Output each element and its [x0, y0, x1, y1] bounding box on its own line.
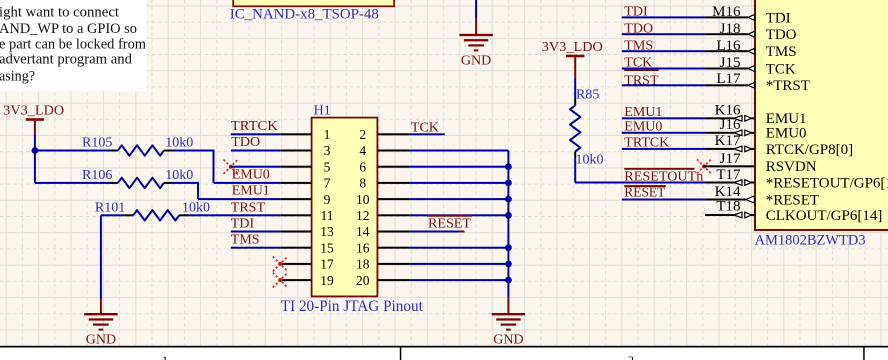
- svg-text:14: 14: [356, 224, 370, 239]
- pin K17: [622, 133, 755, 152]
- wire: [231, 166, 281, 168]
- svg-text:15: 15: [320, 240, 334, 255]
- junction: [505, 261, 512, 268]
- svg-text:R105: R105: [82, 136, 112, 151]
- net label RESET with overline: [427, 215, 472, 232]
- wire: [409, 247, 508, 249]
- svg-text:4: 4: [359, 143, 366, 158]
- net label EMU1: [624, 105, 662, 120]
- net label RESET with overline: [624, 185, 666, 200]
- svg-text:J18: J18: [720, 21, 741, 37]
- pin M16: [622, 4, 755, 20]
- wire: [35, 150, 109, 152]
- wire: [231, 231, 281, 233]
- sheet margin: [0, 347, 888, 360]
- pin numbers 1-20: [320, 127, 369, 288]
- junction: [32, 147, 39, 154]
- svg-text:R106: R106: [82, 168, 112, 183]
- wire: [409, 263, 508, 265]
- svg-text:5: 5: [324, 159, 331, 174]
- svg-text:K17: K17: [715, 133, 741, 149]
- svg-text:TI 20-Pin JTAG Pinout: TI 20-Pin JTAG Pinout: [281, 298, 424, 315]
- svg-text:ight want to connect: ight want to connect: [0, 4, 120, 20]
- pin T18: [705, 198, 755, 217]
- svg-text:12: 12: [356, 208, 370, 223]
- wire: [409, 198, 508, 200]
- wire bus: [507, 151, 509, 298]
- wire: [409, 279, 508, 281]
- resistor R105: [82, 136, 193, 156]
- wire: [409, 150, 508, 152]
- component AM1802 box: [755, 0, 888, 230]
- wire: [409, 231, 464, 233]
- svg-text:8: 8: [359, 176, 366, 191]
- svg-text:18: 18: [356, 257, 370, 272]
- wire: [409, 166, 508, 168]
- label IC_NAND-x8_TSOP-48: [230, 6, 379, 22]
- label AM1802BZWTD3: [755, 233, 866, 249]
- net label TDO: [231, 135, 260, 150]
- ground: [492, 297, 525, 348]
- svg-text:L16: L16: [716, 38, 741, 54]
- wire: [409, 133, 444, 135]
- junction: [505, 163, 512, 170]
- resistor R101: [95, 201, 210, 221]
- svg-text:J15: J15: [720, 55, 741, 71]
- net label RESETOUTn with overline: [624, 168, 703, 185]
- wire: [231, 133, 281, 135]
- pin K14: [622, 184, 755, 203]
- svg-text:T17: T17: [716, 167, 741, 183]
- svg-text:2: 2: [359, 127, 366, 142]
- svg-text:IC_NAND-x8_TSOP-48: IC_NAND-x8_TSOP-48: [230, 6, 379, 22]
- svg-text:GND: GND: [461, 53, 491, 68]
- pin L17: [622, 71, 755, 88]
- svg-text:10k0: 10k0: [165, 136, 193, 151]
- svg-text:R85: R85: [576, 87, 599, 102]
- svg-text:1: 1: [162, 353, 168, 360]
- net label TRTCK: [624, 136, 669, 151]
- svg-text:J17: J17: [720, 151, 741, 167]
- svg-text:17: 17: [320, 257, 334, 272]
- svg-text:TCK: TCK: [766, 61, 796, 77]
- connector left pin stubs: [280, 133, 311, 281]
- svg-text:GND: GND: [86, 333, 116, 348]
- wire: [173, 182, 281, 200]
- net label TDO: [624, 21, 653, 36]
- power 3V3_LDO: [542, 40, 603, 77]
- svg-text:RESET: RESET: [624, 186, 665, 201]
- no-ERC marker: [697, 159, 711, 173]
- no-ERC marker: [273, 257, 288, 272]
- wire: [475, 0, 477, 19]
- svg-text:3V3_LDO: 3V3_LDO: [3, 104, 64, 119]
- wire: [173, 150, 281, 184]
- svg-text:6: 6: [359, 159, 366, 174]
- wire: [100, 214, 124, 299]
- text note: [0, 0, 147, 91]
- svg-text:RESETOUTn: RESETOUTn: [624, 169, 703, 184]
- wire: [409, 214, 508, 216]
- svg-text:asing?: asing?: [0, 68, 35, 84]
- net label EMU0: [624, 120, 662, 135]
- connector right pin stubs: [377, 133, 409, 281]
- no-ERC marker: [273, 273, 288, 288]
- pin names inside AM1802: [766, 10, 888, 224]
- pin J17: [703, 151, 755, 168]
- pin J16: [622, 117, 755, 136]
- svg-text:16: 16: [356, 240, 370, 255]
- wire: [231, 247, 281, 249]
- svg-text:TDI: TDI: [231, 217, 255, 232]
- svg-text:TMS: TMS: [766, 44, 797, 60]
- wire: [231, 150, 281, 152]
- net label EMU0: [232, 168, 270, 183]
- wire: [409, 182, 508, 184]
- svg-text:RESET: RESET: [428, 216, 471, 231]
- svg-text:19: 19: [320, 273, 334, 288]
- svg-text:9: 9: [324, 192, 331, 207]
- svg-text:20: 20: [356, 273, 370, 288]
- ground: [459, 19, 492, 69]
- junction: [505, 180, 512, 187]
- svg-text:10: 10: [356, 192, 370, 207]
- svg-text:3V3_LDO: 3V3_LDO: [542, 40, 603, 55]
- net label EMU1: [232, 184, 270, 199]
- svg-text:AM1802BZWTD3: AM1802BZWTD3: [755, 233, 866, 249]
- svg-text:L17: L17: [716, 71, 741, 87]
- resistor R85: [570, 87, 604, 167]
- svg-text:T18: T18: [716, 198, 740, 214]
- power 3V3_LDO: [3, 104, 64, 135]
- svg-text:*RESET: *RESET: [766, 192, 819, 208]
- svg-text:e part can be locked from: e part can be locked from: [0, 36, 146, 52]
- svg-text:R101: R101: [95, 201, 125, 216]
- net label TRTCK: [231, 119, 278, 134]
- net label TRST: [231, 200, 266, 215]
- junction: [505, 212, 512, 219]
- svg-text:EMU0: EMU0: [232, 168, 270, 183]
- sheet border: [0, 346, 888, 360]
- wire: [188, 214, 280, 216]
- pin L16: [622, 38, 755, 54]
- svg-text:EMU1: EMU1: [232, 184, 270, 199]
- wire: [574, 77, 576, 99]
- pin K16: [622, 103, 755, 122]
- svg-text:11: 11: [321, 208, 334, 223]
- net label TMS: [624, 38, 653, 53]
- svg-text:J16: J16: [720, 117, 741, 133]
- junction: [505, 196, 512, 203]
- wire: [34, 151, 109, 184]
- net label TCK: [411, 121, 439, 136]
- resistor R106: [82, 168, 193, 188]
- svg-text:TDI: TDI: [766, 10, 791, 26]
- svg-text:RTCK/GP8[0]: RTCK/GP8[0]: [766, 142, 853, 158]
- no-ERC marker: [224, 160, 238, 174]
- connector H1 box: [312, 118, 378, 297]
- net label TCK: [624, 56, 652, 71]
- net label TMS: [231, 233, 260, 248]
- wire: [34, 135, 36, 151]
- svg-text:TMS: TMS: [231, 233, 260, 248]
- svg-text:10k0: 10k0: [165, 168, 193, 183]
- ground: [84, 300, 117, 348]
- junction: [505, 244, 512, 251]
- svg-text:EMU0: EMU0: [766, 126, 807, 142]
- pin T17: [706, 167, 755, 185]
- svg-text:3: 3: [324, 143, 331, 158]
- svg-text:CLKOUT/GP6[14]: CLKOUT/GP6[14]: [766, 208, 883, 224]
- pin J15: [622, 55, 755, 71]
- svg-text:H1: H1: [314, 103, 331, 118]
- svg-text:*TRST: *TRST: [766, 78, 810, 94]
- svg-text:TDO: TDO: [766, 27, 797, 43]
- svg-text:7: 7: [324, 176, 331, 191]
- svg-text:AND_WP to a GPIO so: AND_WP to a GPIO so: [0, 21, 137, 37]
- svg-text:13: 13: [320, 224, 334, 239]
- pin J18: [622, 21, 755, 37]
- component IC_NAND box (bottom edge): [233, 0, 394, 6]
- label TI 20-Pin JTAG Pinout: [281, 298, 424, 315]
- net label TRST with overline: [624, 69, 659, 88]
- svg-text:TRST: TRST: [231, 200, 266, 215]
- svg-text:RSVDN: RSVDN: [766, 159, 817, 175]
- svg-text:TDO: TDO: [231, 135, 260, 150]
- svg-text:advertant program and: advertant program and: [0, 52, 132, 68]
- svg-text:GND: GND: [493, 333, 523, 348]
- svg-text:10k0: 10k0: [182, 201, 210, 216]
- wire: [574, 158, 706, 184]
- svg-text:1: 1: [324, 127, 331, 142]
- net label TDI: [231, 217, 255, 232]
- svg-text:M16: M16: [712, 4, 741, 20]
- net label TDI: [624, 5, 648, 20]
- svg-text:10k0: 10k0: [576, 152, 604, 167]
- svg-text:*RESETOUT/GP6[1..: *RESETOUT/GP6[1..: [766, 175, 888, 191]
- junction: [505, 277, 512, 284]
- svg-text:TRTCK: TRTCK: [231, 119, 278, 134]
- label H1: [314, 103, 331, 118]
- svg-text:2: 2: [628, 353, 634, 360]
